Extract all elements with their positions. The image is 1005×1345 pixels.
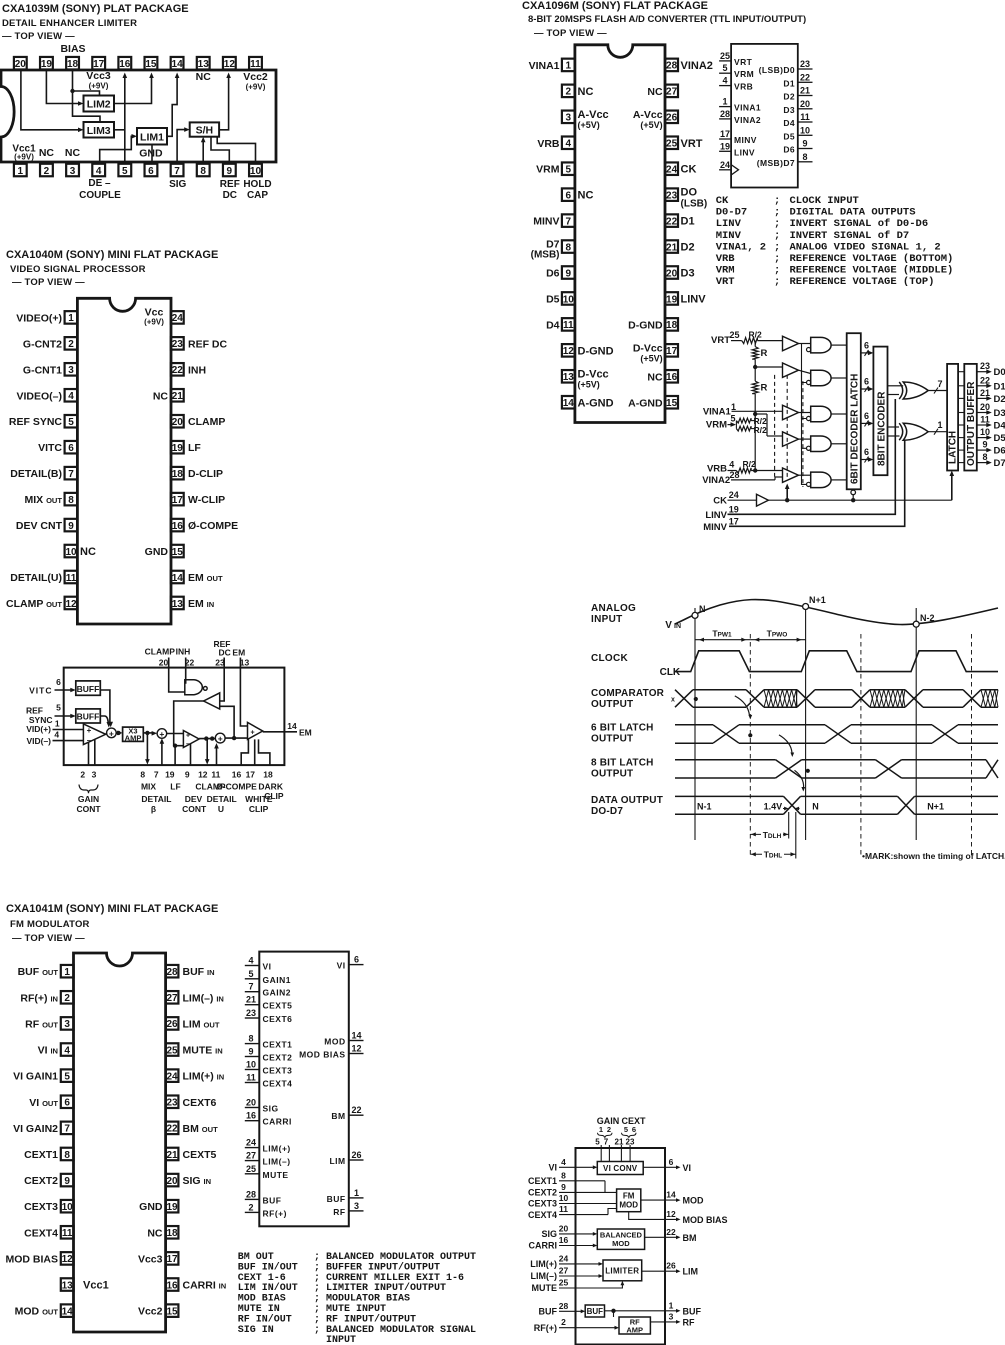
svg-text:D-GND: D-GND <box>628 319 663 331</box>
svg-text:N: N <box>699 604 706 614</box>
svg-text:REF: REF <box>26 706 43 716</box>
svg-text:CXA1039M (SONY) PLAT PACKAGE: CXA1039M (SONY) PLAT PACKAGE <box>2 3 189 15</box>
svg-text:9: 9 <box>248 1047 253 1057</box>
svg-text:GAIN1: GAIN1 <box>263 975 291 985</box>
svg-text:Vcc1: Vcc1 <box>83 1280 109 1292</box>
svg-text:MOD: MOD <box>612 1239 630 1248</box>
svg-text:25: 25 <box>246 1164 256 1174</box>
svg-text:D3: D3 <box>783 105 795 115</box>
svg-text:14: 14 <box>62 1306 74 1317</box>
svg-text:6: 6 <box>566 190 572 201</box>
svg-text:A-GND: A-GND <box>628 397 663 409</box>
svg-text:CEXT4: CEXT4 <box>528 1210 557 1220</box>
svg-text:26: 26 <box>166 1019 178 1030</box>
svg-text:VRT: VRT <box>711 335 730 346</box>
svg-text:22: 22 <box>800 72 810 82</box>
svg-text:VITC: VITC <box>29 686 52 696</box>
svg-text:D5: D5 <box>546 293 560 305</box>
svg-text:VIDEO SIGNAL PROCESSOR: VIDEO SIGNAL PROCESSOR <box>10 264 146 275</box>
svg-text:R: R <box>761 383 768 394</box>
svg-text:N+1: N+1 <box>809 595 826 605</box>
svg-text:22: 22 <box>666 216 678 227</box>
svg-text:LIM3: LIM3 <box>87 125 111 137</box>
svg-text:13: 13 <box>198 59 210 70</box>
svg-text:1: 1 <box>731 402 736 412</box>
svg-text:27: 27 <box>559 1266 569 1276</box>
svg-text:24: 24 <box>559 1253 569 1263</box>
svg-text:2: 2 <box>248 1202 253 1212</box>
svg-text:CLOCK INPUT: CLOCK INPUT <box>790 195 859 207</box>
svg-text:14: 14 <box>351 1031 361 1041</box>
svg-text:MOD: MOD <box>683 1196 704 1206</box>
svg-text:CEXT4: CEXT4 <box>24 1227 58 1239</box>
svg-text:N-1: N-1 <box>697 801 712 811</box>
svg-text:4: 4 <box>566 139 572 150</box>
svg-text:9: 9 <box>561 1182 566 1192</box>
svg-text:3: 3 <box>70 166 76 177</box>
svg-text:22: 22 <box>351 1105 361 1115</box>
svg-text:;: ; <box>314 1252 320 1263</box>
svg-text:8BIT ENCODER: 8BIT ENCODER <box>876 391 887 466</box>
svg-text:8: 8 <box>64 1150 70 1161</box>
svg-text:24: 24 <box>666 165 678 176</box>
svg-text:;: ; <box>774 265 780 277</box>
svg-text:1.4V: 1.4V <box>764 801 783 811</box>
svg-text:9: 9 <box>982 440 987 450</box>
svg-text:18: 18 <box>172 469 184 480</box>
svg-text:17: 17 <box>720 129 730 139</box>
svg-text:26: 26 <box>666 113 678 124</box>
svg-text:7: 7 <box>154 770 159 780</box>
svg-text:17: 17 <box>666 346 678 357</box>
svg-text:CXA1041M (SONY) MINI FLAT PACK: CXA1041M (SONY) MINI FLAT PACKAGE <box>6 903 218 915</box>
svg-text:9: 9 <box>64 1176 70 1187</box>
svg-text:1: 1 <box>669 1300 674 1310</box>
svg-text:8-BIT 20MSPS FLASH A/D CONVERT: 8-BIT 20MSPS FLASH A/D CONVERTER (TTL IN… <box>528 14 806 25</box>
svg-text:14: 14 <box>287 721 297 731</box>
svg-text:CEXT5: CEXT5 <box>183 1149 217 1161</box>
svg-text:23: 23 <box>246 1008 256 1018</box>
svg-text:EM IN: EM IN <box>188 598 214 610</box>
svg-text:DETAIL ENHANCER LIMITER: DETAIL ENHANCER LIMITER <box>2 18 137 29</box>
svg-text:21: 21 <box>172 391 184 402</box>
svg-text:DO: DO <box>681 187 698 199</box>
svg-text:10: 10 <box>980 427 990 437</box>
svg-text:RF INPUT/OUTPUT: RF INPUT/OUTPUT <box>326 1313 416 1325</box>
svg-text:LIM OUT: LIM OUT <box>183 1018 220 1030</box>
svg-text:+: + <box>109 728 114 738</box>
svg-text:15: 15 <box>145 59 157 70</box>
svg-text:20: 20 <box>666 268 678 279</box>
svg-text:NC: NC <box>578 190 594 202</box>
svg-text:VRM: VRM <box>716 265 735 277</box>
svg-text:INVERT SIGNAL of D0-D6: INVERT SIGNAL of D0-D6 <box>790 218 929 230</box>
svg-text:19: 19 <box>666 294 678 305</box>
svg-text:VRB: VRB <box>707 464 727 475</box>
svg-text:MUTE INPUT: MUTE INPUT <box>326 1304 386 1315</box>
svg-text:CLIP: CLIP <box>249 804 269 814</box>
svg-text:LIM(–): LIM(–) <box>531 1271 558 1281</box>
svg-text:DEV CNT: DEV CNT <box>16 520 63 532</box>
svg-text:LIM(+): LIM(+) <box>263 1144 291 1154</box>
svg-text:3: 3 <box>92 770 97 780</box>
svg-text:NC: NC <box>147 1227 163 1239</box>
svg-text:8: 8 <box>248 1034 253 1044</box>
svg-text:OUTPUT: OUTPUT <box>591 734 633 745</box>
svg-text:G-CNT1: G-CNT1 <box>23 364 62 376</box>
svg-text:ANALOG VIDEO SIGNAL 1, 2: ANALOG VIDEO SIGNAL 1, 2 <box>790 241 941 253</box>
svg-text:DC: DC <box>219 647 231 657</box>
svg-text:VI OUT: VI OUT <box>29 1097 58 1109</box>
svg-text:D6: D6 <box>546 268 560 280</box>
svg-text:R/2: R/2 <box>743 459 757 469</box>
svg-text:CEXT6: CEXT6 <box>263 1014 293 1024</box>
svg-text:DIGITAL DATA OUTPUTS: DIGITAL DATA OUTPUTS <box>790 207 916 219</box>
svg-text:CEXT1: CEXT1 <box>528 1176 557 1186</box>
svg-text:5: 5 <box>730 414 735 424</box>
svg-text:COMPARATOR: COMPARATOR <box>591 688 665 699</box>
svg-text:5: 5 <box>64 1071 70 1082</box>
svg-text:SIG IN: SIG IN <box>238 1325 274 1336</box>
svg-text:CEXT2: CEXT2 <box>528 1188 557 1198</box>
svg-text:BUF OUT: BUF OUT <box>18 966 59 978</box>
svg-text:9: 9 <box>68 521 74 532</box>
svg-text:4: 4 <box>96 166 102 177</box>
svg-text:6: 6 <box>354 955 359 965</box>
svg-text:17: 17 <box>246 770 256 780</box>
svg-text:+: + <box>159 729 164 739</box>
svg-text:19: 19 <box>166 1202 178 1213</box>
svg-text:;: ; <box>314 1294 320 1305</box>
svg-text:NC: NC <box>65 147 81 159</box>
svg-text:NC: NC <box>647 86 663 98</box>
svg-text:9: 9 <box>566 268 572 279</box>
svg-text:•MARK:shown the timing of LATC: •MARK:shown the timing of LATCH. <box>862 851 1005 861</box>
svg-text:MINV: MINV <box>533 216 559 228</box>
svg-text:+: + <box>218 734 223 744</box>
svg-text:D4: D4 <box>994 421 1005 432</box>
svg-text:BUF: BUF <box>539 1307 558 1317</box>
svg-text:13: 13 <box>172 599 184 610</box>
svg-text:D-CLIP: D-CLIP <box>188 468 223 480</box>
svg-text:4: 4 <box>248 956 253 966</box>
svg-text:BUFFER INPUT/OUTPUT: BUFFER INPUT/OUTPUT <box>326 1261 440 1273</box>
svg-text:14: 14 <box>563 398 575 409</box>
svg-text:16: 16 <box>166 1280 178 1291</box>
svg-text:23: 23 <box>666 190 678 201</box>
svg-text:21: 21 <box>980 388 990 398</box>
svg-text:D0: D0 <box>994 367 1005 378</box>
svg-text:VI: VI <box>683 1163 692 1173</box>
svg-text:11: 11 <box>250 59 261 70</box>
svg-text:Vcc2: Vcc2 <box>243 71 268 83</box>
svg-text:CEXT1: CEXT1 <box>24 1149 58 1161</box>
svg-text:5: 5 <box>595 1137 600 1146</box>
svg-text:2: 2 <box>80 770 85 780</box>
svg-text:11: 11 <box>62 1228 73 1239</box>
svg-text:RF: RF <box>683 1317 695 1327</box>
svg-text:CEXT2: CEXT2 <box>263 1053 293 1063</box>
svg-text:MINV: MINV <box>734 135 757 145</box>
svg-text:CARRI IN: CARRI IN <box>183 1280 227 1292</box>
svg-text:21: 21 <box>615 1137 624 1146</box>
svg-text:28: 28 <box>246 1189 256 1199</box>
svg-text:23: 23 <box>980 361 990 371</box>
svg-text:;: ; <box>314 1325 320 1336</box>
svg-text:6: 6 <box>864 377 869 387</box>
svg-text:20: 20 <box>172 417 184 428</box>
svg-text:CLAMP OUT: CLAMP OUT <box>6 598 62 610</box>
svg-text:VID(+): VID(+) <box>26 724 51 734</box>
svg-text:12: 12 <box>198 770 208 780</box>
svg-text:CARRI: CARRI <box>263 1117 292 1127</box>
svg-text:VRT: VRT <box>734 57 753 67</box>
svg-text:BUFF: BUFF <box>77 712 100 722</box>
svg-text:R/2: R/2 <box>749 330 763 340</box>
svg-text:8: 8 <box>561 1170 566 1180</box>
svg-text:CEXT5: CEXT5 <box>263 1001 293 1011</box>
svg-text:CONT: CONT <box>182 804 207 814</box>
svg-text:23: 23 <box>626 1137 635 1146</box>
svg-text:LIMITER INPUT/OUTPUT: LIMITER INPUT/OUTPUT <box>326 1282 446 1294</box>
svg-text:BM OUT: BM OUT <box>238 1252 274 1263</box>
svg-text:16: 16 <box>119 59 131 70</box>
svg-text:OUTPUT: OUTPUT <box>591 769 633 780</box>
svg-text:LIM(+) IN: LIM(+) IN <box>183 1071 225 1083</box>
svg-text:VRT: VRT <box>716 276 735 288</box>
svg-text:1: 1 <box>354 1188 359 1198</box>
svg-text:VI: VI <box>337 961 346 971</box>
svg-text:5: 5 <box>68 417 74 428</box>
svg-text:13: 13 <box>62 1280 74 1291</box>
svg-text:INH: INH <box>176 646 191 656</box>
svg-text:28: 28 <box>729 470 739 480</box>
svg-text:CLAMP: CLAMP <box>188 416 225 428</box>
svg-text:;: ; <box>774 276 780 288</box>
svg-text:LF: LF <box>188 442 201 454</box>
svg-text:6: 6 <box>864 340 869 350</box>
svg-text:7: 7 <box>604 1137 609 1146</box>
svg-text:G-CNT2: G-CNT2 <box>23 338 62 350</box>
svg-text:INH: INH <box>188 364 206 376</box>
svg-text:VINA1, 2: VINA1, 2 <box>716 241 766 253</box>
svg-text:;: ; <box>314 1262 320 1273</box>
svg-text:GND: GND <box>145 546 169 558</box>
svg-text:22: 22 <box>666 1227 676 1237</box>
svg-text:22: 22 <box>166 1124 178 1135</box>
svg-text:24: 24 <box>166 1071 178 1082</box>
svg-text:BUF: BUF <box>683 1306 702 1316</box>
svg-text:5: 5 <box>722 63 727 73</box>
svg-text:LIM: LIM <box>329 1156 345 1166</box>
svg-text:CEXT3: CEXT3 <box>263 1066 293 1076</box>
svg-text:MOD: MOD <box>324 1037 345 1047</box>
svg-text:11: 11 <box>559 1204 568 1214</box>
svg-text:28: 28 <box>166 967 178 978</box>
svg-text:(+5V): (+5V) <box>640 353 662 363</box>
svg-text:CLK: CLK <box>660 667 681 678</box>
svg-text:12: 12 <box>666 1209 676 1219</box>
svg-text:D0-D7: D0-D7 <box>716 207 748 219</box>
svg-text:Vcc2: Vcc2 <box>138 1306 163 1318</box>
svg-text:LF: LF <box>170 782 180 792</box>
svg-text:V: V <box>665 620 672 631</box>
svg-text:MINV: MINV <box>716 230 742 242</box>
svg-text:27: 27 <box>166 993 178 1004</box>
svg-text:VINA1: VINA1 <box>703 407 732 418</box>
svg-text:INVERT SIGNAL of D7: INVERT SIGNAL of D7 <box>790 230 910 242</box>
svg-text:8: 8 <box>566 242 572 253</box>
svg-text:LIM(–): LIM(–) <box>263 1157 291 1167</box>
svg-text:VIDEO(–): VIDEO(–) <box>16 390 62 402</box>
svg-text:(+9V): (+9V) <box>246 83 266 92</box>
svg-text:VRB: VRB <box>537 138 560 150</box>
svg-text:;: ; <box>774 195 780 207</box>
svg-text:CK: CK <box>713 496 727 507</box>
svg-text:BALANCED MODULATOR SIGNAL: BALANCED MODULATOR SIGNAL <box>326 1325 476 1336</box>
svg-text:LIMITER: LIMITER <box>605 1266 639 1275</box>
svg-text:12: 12 <box>62 1254 74 1265</box>
svg-text:+: + <box>250 730 254 737</box>
svg-text:VRM: VRM <box>536 164 560 176</box>
svg-text:RF IN/OUT: RF IN/OUT <box>238 1313 292 1325</box>
svg-text:13: 13 <box>563 372 575 383</box>
svg-text:x: x <box>671 697 675 704</box>
svg-text:;: ; <box>774 230 780 242</box>
svg-text:SIG IN: SIG IN <box>183 1175 212 1187</box>
svg-text:10: 10 <box>65 547 77 558</box>
svg-text:11: 11 <box>800 112 810 122</box>
svg-text:DO-D7: DO-D7 <box>591 806 623 817</box>
svg-text:U: U <box>218 804 224 814</box>
svg-text:25: 25 <box>720 51 730 61</box>
svg-text:16: 16 <box>172 521 184 532</box>
svg-text:6 BIT LATCH: 6 BIT LATCH <box>591 723 654 734</box>
svg-text:6: 6 <box>864 447 869 457</box>
svg-text:CEXT 1-6: CEXT 1-6 <box>238 1273 286 1284</box>
svg-text:+: + <box>87 726 92 735</box>
svg-text:5: 5 <box>56 702 61 712</box>
svg-text:RF(+): RF(+) <box>263 1208 287 1218</box>
svg-text:LINV: LINV <box>681 293 707 305</box>
svg-text:CXA1096M (SONY) FLAT PACKAGE: CXA1096M (SONY) FLAT PACKAGE <box>522 0 708 12</box>
svg-text:28: 28 <box>720 109 730 119</box>
svg-text:24: 24 <box>246 1138 256 1148</box>
svg-text:DETAIL: DETAIL <box>207 794 237 804</box>
svg-text:12: 12 <box>351 1044 361 1054</box>
svg-text:23: 23 <box>172 339 184 350</box>
svg-text:1: 1 <box>18 166 24 177</box>
svg-text:CEXT6: CEXT6 <box>183 1097 217 1109</box>
svg-text:8: 8 <box>982 452 987 462</box>
svg-text:10: 10 <box>246 1060 256 1070</box>
svg-text:EM: EM <box>232 647 245 657</box>
svg-text:AMP: AMP <box>626 1325 643 1334</box>
svg-text:14: 14 <box>666 1190 676 1200</box>
svg-text:NC: NC <box>153 390 169 402</box>
svg-text:7: 7 <box>937 379 942 389</box>
svg-text:GAIN2: GAIN2 <box>263 988 291 998</box>
svg-text:25: 25 <box>729 330 739 340</box>
svg-text:VINA1: VINA1 <box>734 103 761 113</box>
svg-text:VI: VI <box>548 1163 557 1173</box>
svg-text:LINV: LINV <box>734 147 755 157</box>
svg-text:1: 1 <box>68 313 74 324</box>
svg-text:5: 5 <box>122 166 128 177</box>
svg-text:D6: D6 <box>783 145 795 155</box>
svg-text:D1: D1 <box>681 216 695 228</box>
svg-text:3: 3 <box>68 365 74 376</box>
svg-text:RF(+): RF(+) <box>534 1323 557 1333</box>
svg-text:RF(+) IN: RF(+) IN <box>20 992 58 1004</box>
svg-text:CEXT1: CEXT1 <box>263 1040 293 1050</box>
svg-text:11: 11 <box>563 320 574 331</box>
svg-text:MUTE: MUTE <box>263 1170 289 1180</box>
svg-text:CARRI: CARRI <box>529 1241 558 1251</box>
svg-text:7: 7 <box>566 216 572 227</box>
svg-text:16: 16 <box>559 1235 569 1245</box>
svg-text:1: 1 <box>722 97 727 107</box>
svg-text:6: 6 <box>64 1098 70 1109</box>
svg-text:NC: NC <box>578 86 594 98</box>
svg-text:REFERENCE VOLTAGE (TOP): REFERENCE VOLTAGE (TOP) <box>790 276 935 288</box>
svg-text:VI IN: VI IN <box>38 1045 58 1057</box>
svg-text:13: 13 <box>240 658 250 668</box>
svg-text:REFERENCE VOLTAGE (BOTTOM): REFERENCE VOLTAGE (BOTTOM) <box>790 253 954 265</box>
svg-text:MIX: MIX <box>141 782 156 792</box>
svg-text:VRM: VRM <box>706 420 727 431</box>
svg-text:(+9V): (+9V) <box>14 153 34 162</box>
svg-text:8: 8 <box>802 152 807 162</box>
svg-text:+: + <box>186 733 190 740</box>
svg-text:LIM IN/OUT: LIM IN/OUT <box>238 1282 298 1294</box>
svg-text:LIM2: LIM2 <box>87 99 111 111</box>
svg-text:3: 3 <box>669 1311 674 1321</box>
svg-text:CEXT4: CEXT4 <box>263 1079 293 1089</box>
svg-text:(+5V): (+5V) <box>578 120 600 130</box>
svg-text:CK: CK <box>681 164 697 176</box>
svg-text:RF OUT: RF OUT <box>25 1018 58 1030</box>
svg-text:6: 6 <box>148 166 154 177</box>
svg-text:β: β <box>151 804 156 814</box>
svg-text:10: 10 <box>559 1193 569 1203</box>
svg-text:MODULATOR BIAS: MODULATOR BIAS <box>326 1294 410 1305</box>
svg-text:21: 21 <box>166 1150 178 1161</box>
svg-text:REFERENCE VOLTAGE (MIDDLE): REFERENCE VOLTAGE (MIDDLE) <box>790 265 954 277</box>
svg-text:24: 24 <box>172 313 184 324</box>
svg-text:VIDEO(+): VIDEO(+) <box>16 312 62 324</box>
svg-text:AMP: AMP <box>125 734 142 743</box>
svg-text:23: 23 <box>166 1098 178 1109</box>
svg-text:7: 7 <box>68 469 74 480</box>
svg-text:Ø-COMPE: Ø-COMPE <box>216 782 257 792</box>
svg-text:27: 27 <box>246 1151 256 1161</box>
svg-text:NC: NC <box>196 71 212 83</box>
svg-text:REF: REF <box>220 179 240 190</box>
svg-text:;: ; <box>314 1273 320 1284</box>
svg-text:VINA2: VINA2 <box>734 115 761 125</box>
svg-text:VI: VI <box>263 962 272 972</box>
svg-text:CLAMP: CLAMP <box>145 646 176 656</box>
svg-text:CONT: CONT <box>76 804 101 814</box>
svg-text:COUPLE: COUPLE <box>79 190 121 201</box>
svg-text:(+9V): (+9V) <box>89 82 109 91</box>
svg-text:11: 11 <box>246 1073 256 1083</box>
svg-text:OUTPUT BUFFER: OUTPUT BUFFER <box>966 381 977 466</box>
svg-text:17: 17 <box>93 59 105 70</box>
svg-text:;: ; <box>774 207 780 219</box>
svg-text:ANALOG: ANALOG <box>591 603 636 614</box>
